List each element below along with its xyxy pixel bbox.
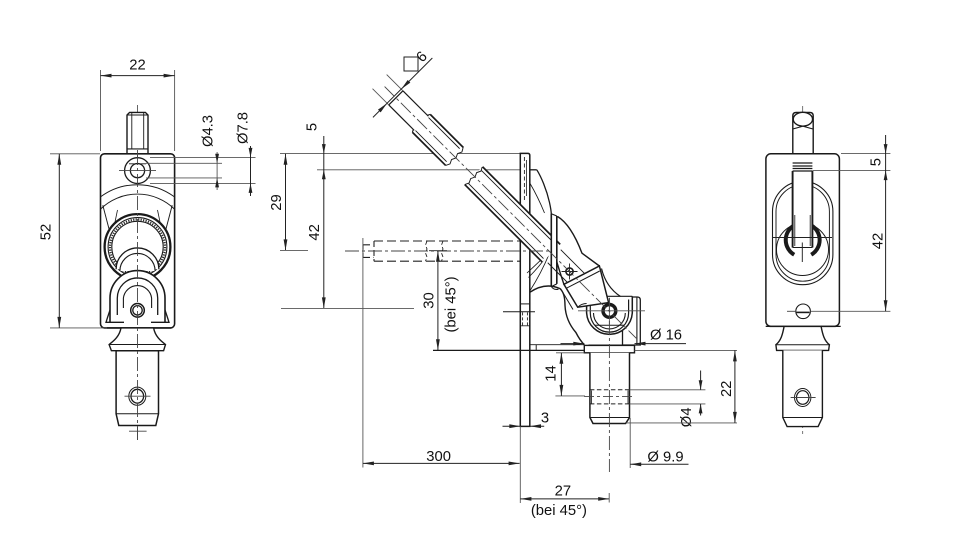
bearing ring hatch — [110, 220, 165, 275]
svg-text:(bei 45°): (bei 45°) — [531, 503, 587, 519]
svg-text:5: 5 — [305, 123, 321, 131]
extension line y=153.6 (plate top level, 5/29 dims) — [280, 153, 520, 155]
dia 7.8 dim — [250, 146, 252, 196]
cross hole — [129, 387, 146, 405]
svg-text:(bei 45°): (bei 45°) — [443, 276, 459, 332]
fork outer — [110, 271, 165, 322]
fork pin circle — [131, 304, 145, 318]
foot ledge — [530, 344, 585, 346]
far ear — [623, 297, 641, 345]
gusset arc 2 — [101, 194, 175, 209]
dim 3 — [503, 425, 545, 427]
rod top cap — [793, 113, 813, 172]
gusset arc 1 — [101, 185, 175, 197]
gusset slant inner left — [113, 210, 118, 234]
neck arcs — [602, 269, 621, 297]
svg-text:Ø7.8: Ø7.8 — [235, 112, 251, 144]
dim 14 — [556, 352, 584, 354]
plate hidden bore dashes — [523, 157, 525, 202]
hidden hole dashes — [590, 390, 630, 404]
slot on plate — [520, 303, 530, 305]
dim 52 extension lines — [50, 154, 107, 328]
svg-text:22: 22 — [719, 381, 735, 397]
fan curves from X — [527, 251, 551, 274]
top hole — [125, 158, 151, 184]
dim 22 extension lines — [101, 70, 175, 151]
dia 7.8 leaders — [150, 157, 256, 183]
boss bulge — [558, 217, 600, 267]
joint pin ring — [603, 305, 616, 318]
svg-text:Ø 16: Ø 16 — [650, 328, 682, 344]
svg-text:29: 29 — [269, 194, 285, 210]
casting top edge — [530, 169, 537, 171]
screw — [796, 304, 811, 319]
dim 22 vertical — [635, 349, 738, 351]
flare trumpet — [109, 328, 165, 351]
casting S-curve rib — [537, 170, 552, 215]
extension line y=169.8 (casting top level) — [317, 169, 520, 171]
sleeve B — [465, 167, 560, 262]
ball dome arc 2 — [120, 253, 155, 271]
fork inner arch — [117, 278, 157, 315]
socket circle — [777, 224, 829, 276]
groove ticks — [591, 391, 628, 404]
bearing ring inner thin — [112, 221, 163, 272]
svg-text:300: 300 — [426, 449, 451, 465]
baseline bold — [433, 349, 584, 351]
centerlines over — [345, 250, 552, 252]
dim 5 / 42 line — [323, 136, 325, 308]
dia 4.3 dim — [216, 152, 218, 190]
lower shaft — [116, 351, 158, 426]
bottom edge of body behind flare — [766, 325, 841, 327]
fork feet — [106, 310, 124, 322]
centerline — [137, 105, 139, 440]
dim dia16 — [561, 343, 687, 345]
svg-text:52: 52 — [39, 224, 55, 240]
svg-text:14: 14 — [543, 365, 559, 381]
boss inner rod lines — [548, 250, 588, 290]
slot stadium inner — [776, 185, 829, 281]
fork cup inner — [590, 300, 628, 333]
flare — [776, 326, 830, 350]
shaft — [590, 353, 630, 424]
thin rod top — [389, 91, 429, 131]
gusset slant right — [164, 205, 172, 237]
svg-text:5: 5 — [869, 158, 885, 166]
socket bold ring — [786, 225, 820, 254]
washer line — [589, 344, 631, 346]
body — [766, 154, 840, 327]
dim 22 — [101, 75, 175, 77]
fork cup arc3 — [594, 313, 626, 329]
sleeve A — [410, 112, 465, 167]
dim 30 — [437, 251, 439, 351]
body — [101, 154, 175, 328]
centerline over — [137, 150, 139, 440]
svg-text:Ø4: Ø4 — [679, 407, 695, 427]
ball dome arc 1 — [116, 248, 159, 269]
svg-text:30: 30 — [421, 292, 437, 308]
wedge thin curve — [530, 183, 545, 213]
svg-text:3: 3 — [541, 411, 549, 427]
hidden rod horizontal (dashed) — [363, 241, 520, 261]
dim 42 bottom ext — [281, 307, 414, 309]
svg-text:42: 42 — [871, 233, 887, 249]
fork arch 3 — [123, 286, 151, 308]
collar — [584, 345, 634, 352]
top pin shaft — [127, 112, 148, 153]
dim 27 — [520, 498, 609, 500]
bar — [551, 214, 557, 287]
dim 300 — [362, 238, 364, 468]
bar bottom link — [551, 286, 558, 289]
svg-text:Ø4.3: Ø4.3 — [200, 115, 216, 147]
ball crosshair — [772, 237, 832, 239]
sq6 extension lines — [373, 75, 403, 105]
dia 4.3 leaders — [146, 163, 222, 178]
shaft hole — [795, 389, 811, 407]
fork cup — [587, 296, 633, 334]
svg-text:22: 22 — [129, 58, 145, 74]
gusset slant inner right — [158, 210, 163, 234]
dim 29 — [285, 154, 287, 251]
sq6 label — [404, 57, 418, 71]
shaft — [783, 350, 823, 426]
dome arch — [530, 286, 585, 345]
slot stadium outer — [773, 181, 833, 284]
dim dia4 — [630, 390, 706, 404]
svg-text:Ø 9.9: Ø 9.9 — [647, 449, 683, 465]
svg-text:27: 27 — [555, 483, 571, 499]
plate — [520, 153, 530, 426]
gusset slant left — [103, 205, 111, 237]
dim 52 — [58, 154, 60, 328]
svg-text:42: 42 — [307, 224, 323, 240]
rod through body — [793, 171, 813, 248]
diamond block — [564, 266, 609, 307]
big bearing bold circle — [105, 214, 171, 280]
centerline — [802, 106, 804, 434]
yoke far arm chord — [595, 324, 624, 326]
sq6 dim line — [373, 58, 432, 117]
body bottom edge behind flare — [104, 327, 171, 329]
rod bands — [793, 163, 813, 171]
bearing ring outer thin — [108, 218, 167, 277]
pivot pin small — [566, 268, 573, 275]
hidden rod break squiggles — [426, 241, 428, 261]
dim dia9.9 — [629, 418, 631, 468]
